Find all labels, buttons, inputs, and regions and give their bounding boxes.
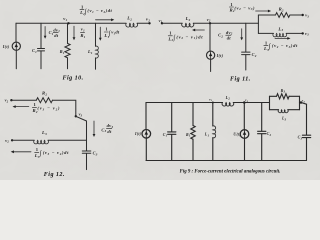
node v3 <box>75 115 77 117</box>
wire v1 to L2 <box>162 22 182 24</box>
svg-text:1: 1 <box>230 2 233 7</box>
svg-text:Fig 9 : Force-current electric: Fig 9 : Force-current electrical analogo… <box>180 169 281 174</box>
svg-text:L1: L1 <box>204 133 210 138</box>
box bottom branch with inductor L3 <box>270 109 279 111</box>
svg-text:L3: L3 <box>41 130 47 136</box>
node v3 <box>300 102 302 104</box>
svg-text:v1dt: v1dt <box>111 30 120 36</box>
svg-text:dt: dt <box>227 35 232 40</box>
node v1 <box>161 22 163 24</box>
node v2 <box>243 101 246 104</box>
label C2 dv2/dt <box>218 30 233 41</box>
svg-text:v2: v2 <box>146 17 150 23</box>
svg-text:(v1 − v2)dt: (v1 − v2)dt <box>87 8 112 14</box>
current arrow (to left) <box>194 29 204 31</box>
svg-text:∫: ∫ <box>172 35 175 42</box>
svg-text:L3: L3 <box>281 117 287 122</box>
wire bottom rail <box>146 160 307 162</box>
svg-text:L2: L2 <box>225 96 231 101</box>
svg-text:C2: C2 <box>252 52 257 58</box>
wire top branch right <box>290 14 303 16</box>
capacitor C3 <box>82 150 91 152</box>
svg-text:L1: L1 <box>87 49 93 55</box>
current arrow 1/L1 int v1 dt <box>99 27 101 38</box>
svg-text:C1: C1 <box>163 133 168 138</box>
wire left rail <box>145 103 147 130</box>
wire bottom branch left <box>258 32 273 34</box>
wire v2 to L3 <box>12 139 34 141</box>
inductor L2 (series, horizontal) <box>222 103 234 106</box>
current source U(t) (middle) <box>243 103 245 130</box>
wire: top rail right segment <box>137 22 149 24</box>
wire v3 to C3 <box>301 103 307 136</box>
current arrow (left, bottom) <box>13 151 31 153</box>
svg-text:dt: dt <box>107 129 112 134</box>
svg-text:R1: R1 <box>186 133 191 138</box>
svg-text:I(t): I(t) <box>216 53 224 58</box>
svg-text:v2: v2 <box>207 17 211 23</box>
wire: top rail left segment <box>16 22 126 24</box>
box top branch with resistor R3 <box>270 95 277 97</box>
svg-text:1: 1 <box>81 4 84 9</box>
svg-text:1: 1 <box>169 31 172 36</box>
label 1/L3 int (v3-v2) dt <box>34 147 69 159</box>
wire R2 to corner, down to v3 <box>53 100 76 116</box>
svg-text:R1: R1 <box>80 33 85 39</box>
capacitor C2 <box>261 103 263 132</box>
label 1/R2 (v2 - v3) <box>229 2 255 13</box>
current source I(t) (left) <box>142 130 151 139</box>
inductor L2 (series, horizontal) <box>126 23 138 27</box>
node v3 (top) <box>302 14 304 16</box>
svg-text:∫: ∫ <box>108 30 111 37</box>
svg-text:I(t): I(t) <box>2 44 10 49</box>
svg-text:C2: C2 <box>218 33 223 39</box>
inductor L1 <box>212 103 214 127</box>
svg-text:C1: C1 <box>32 48 37 54</box>
svg-text:Fig 11.: Fig 11. <box>230 76 251 82</box>
resistor R1 <box>67 23 69 43</box>
svg-text:C2: C2 <box>267 132 272 137</box>
svg-text:(v2 − v3): (v2 − v3) <box>234 5 255 11</box>
box right side <box>299 96 301 109</box>
node v3 (bottom) <box>302 32 304 34</box>
wire top rail <box>146 102 223 104</box>
inductor L2 (series, horizontal) <box>182 23 194 27</box>
wire jog v3 down to C3 column <box>76 116 87 150</box>
current source I(t) <box>209 23 211 51</box>
current arrow top (right) <box>256 10 269 12</box>
current arrow (left) <box>15 106 29 108</box>
current arrow C1 dv1/dt <box>44 27 46 37</box>
svg-text:I(t): I(t) <box>134 132 142 136</box>
label 1/L2 int (v2-v1) dt <box>167 31 203 43</box>
svg-text:v2: v2 <box>5 138 9 144</box>
node v2 <box>148 22 150 24</box>
svg-text:R1: R1 <box>60 49 65 55</box>
label v1/R1 <box>80 27 85 39</box>
svg-text:L3: L3 <box>277 26 283 32</box>
svg-text:∫: ∫ <box>84 8 87 15</box>
svg-text:v3: v3 <box>305 13 309 19</box>
svg-text:v1: v1 <box>63 16 67 22</box>
node v1 <box>212 102 214 104</box>
svg-text:R2: R2 <box>279 7 284 13</box>
resistor R2 (series) <box>276 13 290 18</box>
svg-text:C3: C3 <box>93 151 98 157</box>
svg-text:v2: v2 <box>5 98 9 104</box>
label 1/L2 int (v1-v2) dt (top) <box>79 4 112 16</box>
wire bottom branch right <box>286 32 302 34</box>
svg-text:v3: v3 <box>79 112 83 118</box>
label C3 dv3/dt <box>101 123 113 134</box>
svg-text:U(t): U(t) <box>233 132 241 136</box>
paper background <box>0 0 320 180</box>
node v2 (bottom left) <box>11 139 13 141</box>
wire L3 to C3 column <box>48 139 87 141</box>
svg-text:v1: v1 <box>81 27 85 33</box>
wire split vertical <box>257 15 259 33</box>
current arrow C3 dv3/dt (down) <box>93 121 95 135</box>
svg-text:dt: dt <box>54 33 59 38</box>
current arrow (top, right) <box>96 19 113 21</box>
svg-text:(v2 − v3)dt: (v2 − v3)dt <box>272 43 298 49</box>
capacitor C3 <box>302 134 310 136</box>
resistor R1 <box>192 103 194 126</box>
svg-text:∫: ∫ <box>268 43 271 50</box>
svg-text:C3: C3 <box>298 136 303 141</box>
svg-text:1: 1 <box>36 147 39 152</box>
wire top branch left <box>258 14 275 16</box>
current arrow bottom (right) <box>275 37 288 39</box>
current source I(t) <box>15 23 17 42</box>
svg-text:L2: L2 <box>126 16 132 22</box>
svg-text:L2: L2 <box>185 16 191 22</box>
svg-text:v3: v3 <box>305 31 309 37</box>
node v2 <box>209 22 211 24</box>
capacitor C1 <box>40 23 42 48</box>
svg-text:1: 1 <box>34 102 37 107</box>
inductor L1 <box>95 23 97 46</box>
label 1/R2 (v3 - v2) <box>32 102 60 114</box>
svg-text:C3: C3 <box>101 127 106 133</box>
current arrow v1/R1 <box>73 26 75 38</box>
svg-text:∫: ∫ <box>39 150 42 157</box>
svg-text:R2: R2 <box>42 91 47 97</box>
parallel box left side <box>269 96 271 109</box>
svg-text:1: 1 <box>265 40 268 45</box>
node v2 (top left) <box>10 99 12 101</box>
capacitor C1 <box>171 103 173 132</box>
current arrow C2 dv2/dt (down) <box>241 29 243 38</box>
wire L2 to box <box>233 102 269 104</box>
svg-text:Fig 12.: Fig 12. <box>44 172 65 178</box>
label 1/L3 int (v2-v3) dt <box>263 40 298 52</box>
svg-text:R3: R3 <box>281 89 286 94</box>
label C1 dv1/dt <box>49 27 61 38</box>
svg-text:v1: v1 <box>159 18 163 24</box>
inductor L3 (series, horizontal) <box>34 140 49 144</box>
label 1/L1 int v1 dt <box>103 27 119 39</box>
node v1 <box>67 22 69 24</box>
wire v2 to R2 <box>11 99 36 101</box>
inductor L3 (series, horizontal) <box>273 33 287 36</box>
wire L2 to split <box>193 22 258 24</box>
resistor R2 (series) <box>36 98 52 103</box>
svg-text:Fig 10.: Fig 10. <box>63 76 84 82</box>
capacitor C2 <box>245 23 247 52</box>
svg-text:(v2 − v1)dt: (v2 − v1)dt <box>176 34 203 40</box>
